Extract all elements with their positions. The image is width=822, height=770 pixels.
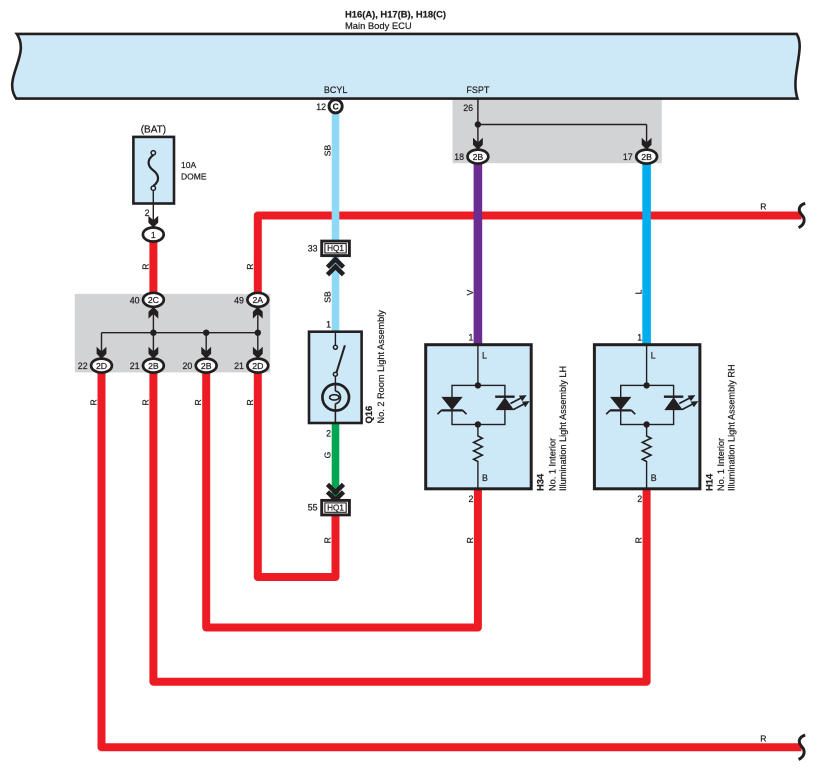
chevrons above HQ1-55 (328, 484, 344, 500)
wire R (49-2A up and right off-page) (258, 216, 802, 295)
svg-text:R: R (634, 537, 644, 543)
zener diode (H34) (438, 397, 467, 414)
arrow down into 21-2B (149, 347, 159, 359)
zener diode (H14) (606, 397, 635, 414)
svg-text:12: 12 (316, 102, 326, 112)
connector 17 (2B) (636, 150, 657, 164)
junction dot bottom (H14) (643, 421, 649, 427)
off-page squiggle bottom right (799, 735, 806, 759)
junction block shading (left gray box) (75, 294, 270, 373)
wire V (18-2B to H34) (474, 160, 483, 345)
arrow into connector 1 (148, 216, 158, 228)
svg-text:HQ1: HQ1 (327, 244, 344, 253)
svg-text:BCYL: BCYL (324, 85, 348, 95)
junction connector HQ1-55 (322, 500, 350, 515)
off-page squiggle top right (799, 203, 806, 227)
connector 18 (2B) (468, 150, 489, 164)
fuse element (149, 151, 158, 225)
connector 21 (2D) (247, 359, 268, 373)
svg-text:55: 55 (308, 503, 318, 513)
junction block shading (right gray box) (453, 99, 662, 164)
svg-text:V: V (465, 289, 475, 295)
pin 12 circle C (329, 100, 342, 113)
svg-text:2A: 2A (252, 295, 263, 305)
right gray box wiring (478, 99, 647, 150)
svg-text:H34: H34 (535, 473, 546, 491)
wire SB (HQ1-33 to Q16) (332, 255, 340, 332)
junction dot top (H14) (643, 382, 649, 388)
svg-text:R: R (323, 537, 333, 543)
wire G (Q16 to HQ1-55) (332, 423, 340, 500)
left gray box bus wiring (102, 307, 258, 359)
svg-text:49: 49 (234, 295, 244, 305)
room light Q16 box (309, 332, 362, 423)
svg-text:L: L (634, 289, 644, 294)
lamp symbol (322, 384, 349, 423)
svg-text:L: L (482, 351, 487, 361)
arrow up into 49-2A (253, 307, 263, 319)
svg-text:SB: SB (323, 291, 333, 303)
wire R loop A (21-2D to HQ1-55) (258, 368, 336, 577)
junction dot at 2C column (150, 330, 156, 336)
svg-text:2B: 2B (473, 152, 484, 162)
arrow into 18-2B (473, 138, 483, 150)
svg-text:2: 2 (637, 494, 642, 504)
svg-text:Q16: Q16 (363, 406, 374, 424)
wire R loop C (21-2B to H14 pin2) (153, 368, 646, 682)
svg-text:1: 1 (326, 319, 331, 329)
wire L (17-2B to H14) (642, 160, 651, 345)
connector 20 (2B) (196, 359, 217, 373)
svg-text:R: R (193, 399, 203, 405)
svg-text:26: 26 (463, 103, 473, 113)
svg-text:R: R (245, 399, 255, 405)
svg-text:L: L (651, 351, 656, 361)
svg-text:2C: 2C (148, 295, 159, 305)
svg-text:2D: 2D (252, 361, 263, 371)
chevrons below HQ1-33 (328, 259, 344, 275)
junction dot top (H34) (475, 382, 481, 388)
connector 40 (2C) (143, 293, 164, 307)
svg-text:H16(A), H17(B), H18(C): H16(A), H17(B), H18(C) (345, 9, 446, 20)
svg-text:R: R (245, 263, 255, 269)
svg-text:G: G (323, 451, 333, 458)
svg-text:No. 1 Interior: No. 1 Interior (716, 438, 726, 491)
svg-text:2: 2 (468, 494, 473, 504)
arrow up into 40-2C (149, 307, 159, 319)
svg-text:B: B (482, 473, 488, 483)
junction connector HQ1-33 (322, 241, 350, 256)
svg-text:1: 1 (151, 230, 156, 240)
svg-text:R: R (140, 263, 150, 269)
svg-text:21: 21 (130, 361, 140, 371)
arrow down into 20-2B (201, 347, 211, 359)
fuse box 10A DOME (133, 137, 174, 204)
junction dot bottom (H34) (475, 421, 481, 427)
arrow down into 21-2D (253, 347, 263, 359)
resistor (H34) (474, 436, 483, 462)
wire SB (BCYL to HQ1-33) (332, 110, 340, 242)
svg-text:Illumination Light Assembly LH: Illumination Light Assembly LH (558, 366, 568, 491)
wire R loop D (22-2D off-page right) (102, 368, 802, 747)
svg-text:1: 1 (468, 332, 473, 342)
junction dot at 20-2B column (203, 330, 209, 336)
LED diode (H34) (495, 395, 530, 410)
svg-text:SB: SB (323, 145, 333, 157)
H34 internal wiring (452, 345, 505, 489)
svg-text:2D: 2D (96, 361, 107, 371)
svg-text:33: 33 (308, 243, 318, 253)
svg-text:Main Body ECU: Main Body ECU (345, 20, 412, 31)
connector 1 (143, 228, 164, 242)
arrow down into 22-2D (97, 347, 107, 359)
illumination light H34 box (426, 345, 532, 489)
svg-text:1: 1 (637, 332, 642, 342)
svg-text:R: R (465, 537, 475, 543)
Main Body ECU band (12, 34, 799, 99)
svg-text:18: 18 (454, 152, 464, 162)
svg-text:B: B (651, 473, 657, 483)
connector 22 (2D) (91, 359, 112, 373)
connector 21 (2B) (143, 359, 164, 373)
switch contact top (333, 332, 345, 384)
H14 internal wiring (621, 345, 674, 489)
arrow into 17-2B (642, 138, 652, 150)
svg-text:H14: H14 (703, 473, 714, 491)
wire R loop B (20-2B to H34 pin2) (206, 368, 478, 628)
junction dot 26 (475, 121, 481, 127)
wire R (fuse to 40-2C) (149, 242, 157, 295)
svg-text:20: 20 (183, 361, 193, 371)
illumination light H14 box (594, 345, 700, 489)
resistor (H14) (642, 436, 651, 462)
svg-text:21: 21 (234, 361, 244, 371)
svg-text:40: 40 (130, 295, 140, 305)
svg-text:22: 22 (78, 361, 88, 371)
svg-text:C: C (333, 102, 339, 112)
svg-text:R: R (760, 202, 766, 212)
connector 49 (2A) (247, 293, 268, 307)
svg-text:2B: 2B (201, 361, 212, 371)
svg-text:2: 2 (326, 428, 331, 438)
svg-text:R: R (140, 399, 150, 405)
svg-text:R: R (89, 399, 99, 405)
LED diode (H14) (664, 395, 699, 410)
svg-text:(BAT): (BAT) (141, 124, 166, 135)
svg-text:2B: 2B (148, 361, 159, 371)
svg-text:R: R (760, 733, 766, 743)
svg-text:DOME: DOME (181, 171, 207, 181)
svg-text:HQ1: HQ1 (327, 504, 344, 513)
svg-text:No. 1 Interior: No. 1 Interior (547, 438, 557, 491)
svg-text:10A: 10A (181, 160, 196, 170)
svg-text:Illumination Light Assembly RH: Illumination Light Assembly RH (727, 364, 737, 491)
svg-text:17: 17 (623, 152, 633, 162)
svg-text:2B: 2B (641, 152, 652, 162)
junction dot at 2A column (255, 330, 261, 336)
svg-text:FSPT: FSPT (466, 85, 490, 95)
svg-text:No. 2 Room Light Assembly: No. 2 Room Light Assembly (376, 310, 386, 424)
